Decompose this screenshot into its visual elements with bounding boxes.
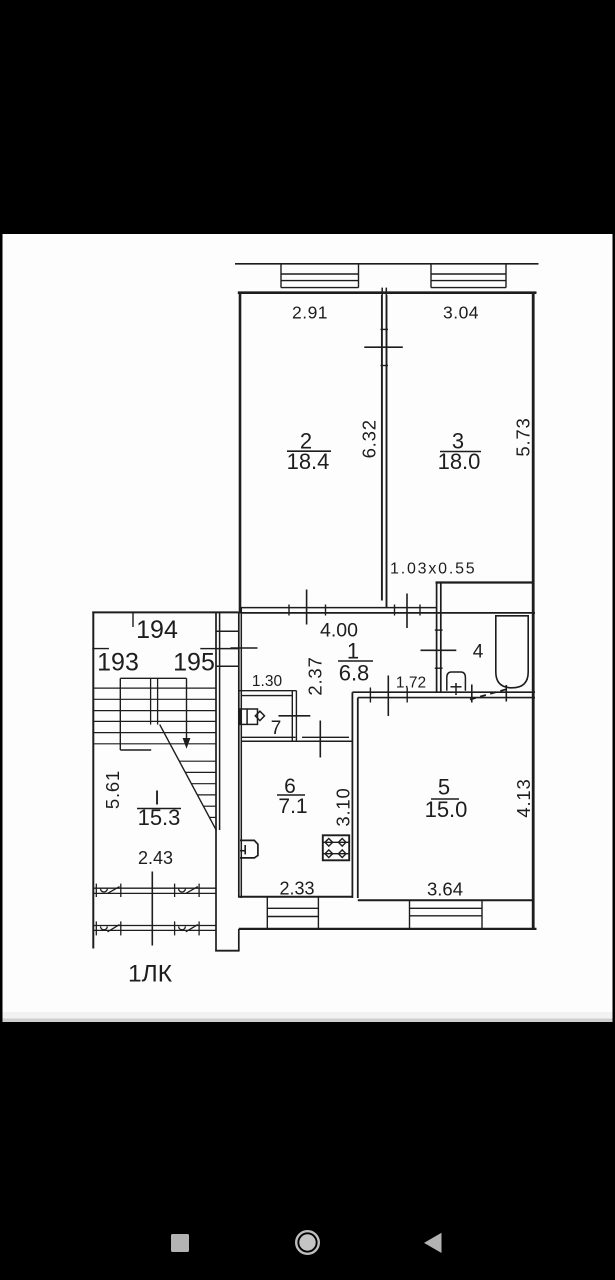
room 5 label underline xyxy=(431,798,459,800)
stair core middle double line xyxy=(150,678,152,724)
bottom photo edge shading xyxy=(3,1012,613,1022)
svg-text:6.32: 6.32 xyxy=(359,419,380,458)
landing door lines xyxy=(92,648,109,650)
window A hatches xyxy=(96,884,199,897)
room 3 label underline xyxy=(440,451,481,453)
stair direction arrow xyxy=(183,738,191,749)
staircase window line A xyxy=(93,888,216,893)
svg-text:1ЛК: 1ЛК xyxy=(128,961,173,988)
bathroom door ticks on left wall xyxy=(435,629,443,631)
door ticks closet doorway xyxy=(394,605,396,616)
svg-text:4.13: 4.13 xyxy=(513,778,534,817)
svg-text:2.43: 2.43 xyxy=(138,848,173,868)
room 5 bottom wall xyxy=(358,899,534,901)
window W2 top (3.04) xyxy=(431,264,506,288)
bathroom door swing dashes xyxy=(470,689,509,700)
building bottom exterior line xyxy=(239,928,537,930)
svg-text:15.3: 15.3 xyxy=(138,805,181,830)
washbasin in room 7 xyxy=(240,709,257,724)
bathroom door end ticks xyxy=(471,685,473,703)
svg-text:5.61: 5.61 xyxy=(102,770,123,809)
divider stub to balcony xyxy=(381,288,383,295)
dimension tick kitchen doorway xyxy=(319,721,321,758)
kitchen / room 5 dividing wall xyxy=(351,692,353,898)
svg-text:5: 5 xyxy=(438,775,450,800)
svg-text:1.30: 1.30 xyxy=(252,673,283,690)
room 5 door ticks xyxy=(369,688,371,703)
staircase top wall xyxy=(92,611,239,613)
dimension tick room 2 doorway xyxy=(306,590,308,625)
window B hatches xyxy=(96,921,199,935)
2.43 dimension vertical line xyxy=(151,872,153,946)
svg-text:2.91: 2.91 xyxy=(292,303,328,323)
svg-text:3.10: 3.10 xyxy=(333,787,354,826)
svg-text:2.37: 2.37 xyxy=(304,656,325,695)
radiator bump on kitchen left wall xyxy=(240,840,258,858)
stair treads upper xyxy=(93,688,216,744)
vestibule connector lines xyxy=(216,630,239,632)
room 6 label underline xyxy=(277,794,305,796)
hallway top wall lower line xyxy=(241,612,535,614)
exterior top wall xyxy=(238,291,537,294)
dimension tick across wall 2/3 xyxy=(364,346,403,348)
svg-text:193: 193 xyxy=(97,649,139,677)
svg-text:3.64: 3.64 xyxy=(427,879,463,900)
svg-text:18.4: 18.4 xyxy=(287,449,330,474)
stove in kitchen xyxy=(323,835,349,860)
kitchen top wall lower line xyxy=(241,740,352,742)
svg-text:194: 194 xyxy=(136,616,178,644)
dimension tick bathroom doorway xyxy=(421,649,457,651)
photo white background xyxy=(3,234,613,1022)
staircase right wall (vestibule left) xyxy=(215,613,217,952)
kitchen bottom wall xyxy=(238,896,352,898)
dimension tick closet doorway xyxy=(406,594,408,629)
room 2 bottom wall upper line xyxy=(241,607,436,609)
svg-text:1.72: 1.72 xyxy=(396,675,426,692)
svg-text:18.0: 18.0 xyxy=(438,449,481,474)
room 3 bottom wall xyxy=(436,581,535,583)
staircase left wall xyxy=(92,612,94,949)
door ticks room 2 doorway xyxy=(288,605,290,616)
svg-text:6.8: 6.8 xyxy=(339,661,370,686)
nav home circle button xyxy=(296,1231,319,1254)
room 2 label underline xyxy=(287,450,331,452)
room 7 right wall xyxy=(291,691,293,741)
bathroom bottom / corridor wall upper line xyxy=(352,691,535,693)
room 7 top wall lower line xyxy=(241,695,292,697)
room 5 window xyxy=(410,900,483,929)
kitchen top wall (room 7 bottom) upper line xyxy=(241,736,295,738)
svg-text:195: 195 xyxy=(173,649,215,677)
nav back triangle button xyxy=(424,1233,442,1253)
hallway left wall outer line xyxy=(238,613,240,898)
door ticks in wall 2/3 xyxy=(381,328,389,330)
svg-text:2.33: 2.33 xyxy=(279,879,314,899)
hallway left wall inner line xyxy=(240,607,242,898)
staircase window line B xyxy=(93,926,216,931)
exterior left wall xyxy=(239,292,242,614)
stair diagonal cut line xyxy=(160,725,217,831)
vestibule bottom closure xyxy=(215,950,239,952)
stair core rectangle xyxy=(120,677,186,679)
room I label underline xyxy=(137,808,181,810)
svg-text:7: 7 xyxy=(271,718,282,739)
room 1 label underline xyxy=(338,660,373,662)
stair treads lower flight xyxy=(179,761,216,817)
svg-text:7.1: 7.1 xyxy=(278,795,307,818)
room 5 top wall lower line xyxy=(358,697,535,699)
wall between room 2 and room 3 xyxy=(381,295,383,601)
svg-text:15.0: 15.0 xyxy=(425,797,468,822)
svg-text:4: 4 xyxy=(473,642,484,663)
kitchen window xyxy=(267,897,318,929)
svg-text:1.03х0.55: 1.03х0.55 xyxy=(390,561,476,578)
closet right wall / bathroom left wall xyxy=(436,583,438,692)
room 7 top wall upper line xyxy=(239,690,297,692)
toilet xyxy=(447,672,466,691)
nav square button xyxy=(171,1234,189,1252)
bathtub xyxy=(496,616,528,688)
svg-text:3.04: 3.04 xyxy=(443,303,479,323)
exterior right wall xyxy=(532,292,535,931)
svg-text:5.73: 5.73 xyxy=(513,417,534,456)
dimension tick room 5 doorway xyxy=(387,676,389,717)
window W1 top (2.91) xyxy=(281,264,359,288)
balcony top line xyxy=(235,263,539,265)
door tick 194 xyxy=(132,613,134,627)
entrance door tick on left wall xyxy=(231,647,258,649)
room 7 dimension tick xyxy=(279,715,311,717)
